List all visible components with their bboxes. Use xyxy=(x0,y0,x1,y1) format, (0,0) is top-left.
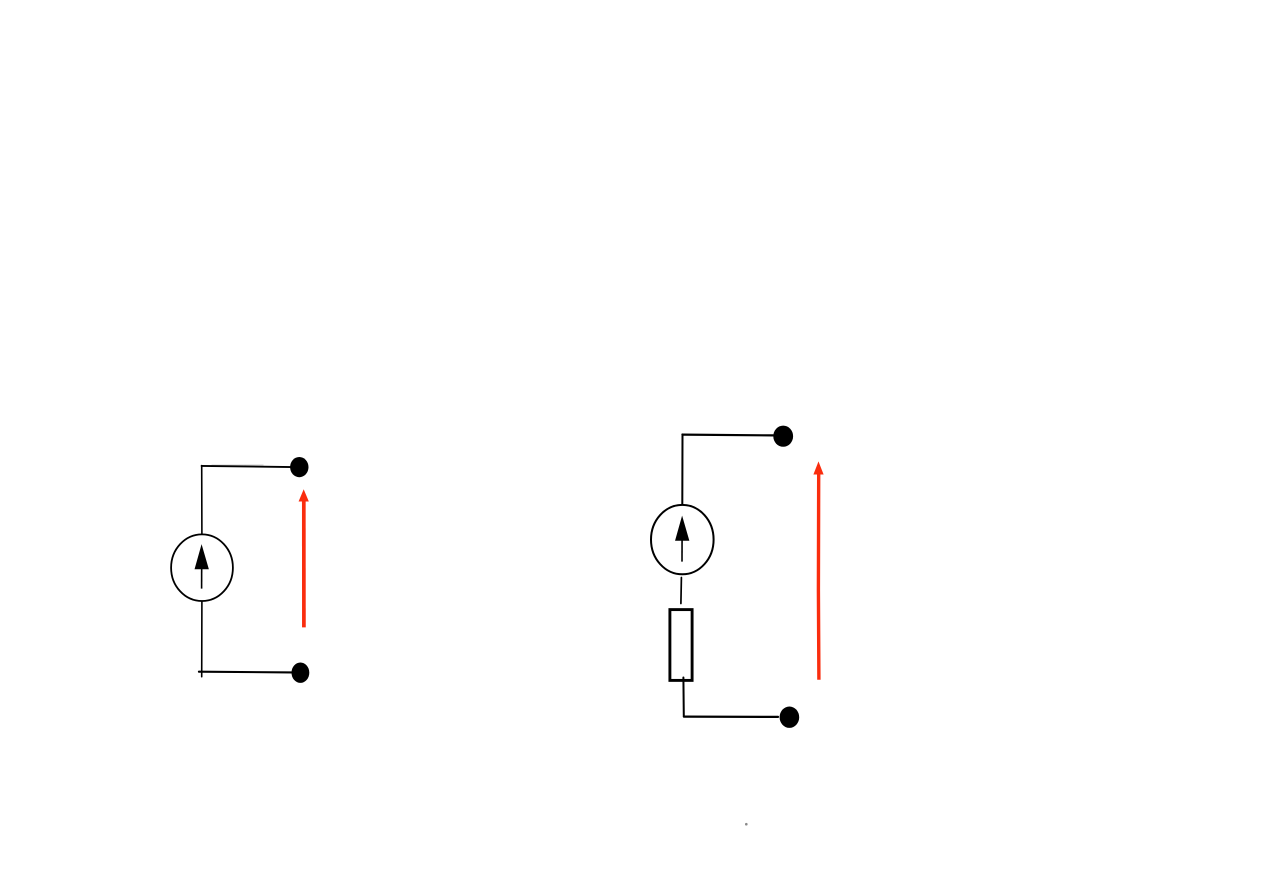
wire (left circuit, upper-left vertical) xyxy=(201,466,203,535)
node D (right circuit, bottom terminal dot) xyxy=(780,707,800,728)
wire (right circuit, top horizontal) xyxy=(682,434,773,437)
wire (right circuit, upper vertical) xyxy=(681,434,683,504)
voltage arrow V2 (right circuit, red, shaft) xyxy=(817,471,821,680)
stray pen mark xyxy=(745,823,748,826)
voltage arrow V2 (right circuit, red, head) xyxy=(814,463,823,474)
current source I1 (left circuit, circle) xyxy=(171,534,233,601)
wire (left circuit, lower-left vertical with tail past corner) xyxy=(201,602,203,677)
current source I2 (right circuit, circle) xyxy=(651,505,714,574)
wire (right circuit, bottom horizontal) xyxy=(684,715,778,718)
current source I2 arrow (shaft) xyxy=(681,532,683,562)
wire (left circuit, bottom horizontal) xyxy=(199,671,292,674)
current source I2 arrow (head) xyxy=(676,517,689,540)
voltage arrow V1 (left circuit, red, head) xyxy=(299,491,308,501)
node B (left circuit, bottom terminal dot) xyxy=(292,663,310,683)
wire (right circuit, resistor to bottom corner) xyxy=(682,678,684,717)
wire (left circuit, top horizontal) xyxy=(202,466,293,467)
wire (right circuit, circle to resistor) xyxy=(680,578,683,604)
voltage arrow V1 (left circuit, red, shaft) xyxy=(302,499,306,628)
node C (right circuit, top terminal dot) xyxy=(773,426,793,447)
resistor R1 (rectangle body) xyxy=(670,610,692,681)
current source I1 arrow (head) xyxy=(195,546,208,569)
wire (left circuit, top horizontal, ghost overstroke) xyxy=(212,464,263,466)
current source I1 arrow (shaft) xyxy=(201,560,203,589)
node A (left circuit, top terminal dot) xyxy=(290,457,308,477)
